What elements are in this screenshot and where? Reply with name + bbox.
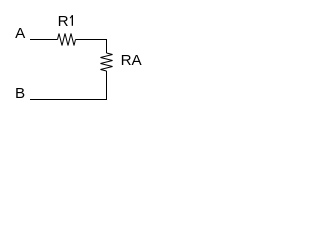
resistor RA bbox=[101, 53, 113, 71]
svg-text:A: A bbox=[15, 25, 26, 42]
svg-text:RA: RA bbox=[121, 52, 143, 69]
resistor R1 bbox=[58, 34, 76, 46]
wire from bottom-right corner to node B bbox=[30, 99, 107, 101]
wire vertical, top lead of RA bbox=[106, 40, 108, 54]
wire from R1 right terminal to top-right corner bbox=[76, 39, 108, 41]
wire vertical, bottom lead of RA to bottom-right corner bbox=[106, 71, 108, 100]
label R1 digit 1 stem bbox=[71, 15, 73, 26]
svg-text:R: R bbox=[58, 13, 69, 30]
svg-text:B: B bbox=[15, 85, 25, 102]
label R1 digit 1 flag bbox=[70, 16, 72, 19]
wire from node A to R1 left terminal bbox=[30, 39, 58, 41]
